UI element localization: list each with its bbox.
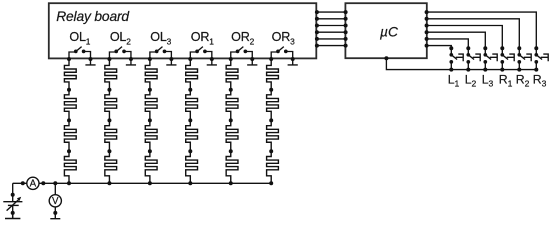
pushbutton switch R1 [502, 48, 514, 69]
voltmeter V [49, 195, 61, 207]
inductor column 3 segment 2 [145, 90, 157, 121]
junction dot column 5 tap 1 [229, 88, 233, 92]
switch OL1 (relay contact) [69, 47, 91, 59]
inductor column 6 segment 1 [267, 58, 279, 89]
junction dot column 4 tap 3 [188, 149, 192, 153]
svg-text:R2: R2 [516, 73, 530, 89]
inductor column 3 segment 4 [145, 151, 157, 183]
wire: uC output 3 to switch [427, 26, 503, 49]
svg-text:Relay board: Relay board [56, 9, 130, 24]
junction dot column 2 bottom [107, 181, 111, 185]
junction dot column 1 tap 2 [67, 118, 71, 122]
junction dot column 4 tap 1 [188, 88, 192, 92]
wire: relay board to uC line 6 [316, 45, 345, 47]
wire: uC output 4 to switch [427, 32, 486, 48]
open terminal stub under OR2 [247, 58, 257, 65]
wire: bottom bus [13, 182, 272, 184]
junction dot column 6 tap 2 [269, 118, 273, 122]
pushbutton switch L1 [451, 48, 463, 69]
junction dot column 4 bottom [188, 181, 192, 185]
wire below capacitor [12, 205, 14, 213]
inductor column 5 segment 2 [226, 90, 238, 121]
svg-text:OR2: OR2 [231, 30, 255, 47]
switch OR2 (relay contact) [231, 47, 253, 59]
ground under source [5, 213, 20, 219]
inductor column 6 segment 2 [267, 90, 279, 121]
inductor column 5 segment 1 [226, 58, 238, 89]
wire: relay board to uC line 1 [316, 11, 345, 13]
junction dot column 3 bottom [148, 181, 152, 185]
inductor column 5 segment 4 [226, 151, 238, 183]
svg-text:L2: L2 [465, 73, 477, 89]
junction dot column 6 tap 3 [269, 149, 273, 153]
junction dot column 2 tap 2 [107, 118, 111, 122]
wire: right switches common return to uC [386, 58, 536, 69]
wire: relay board to uC line 3 [316, 25, 345, 27]
junction dot column 6 bottom [269, 181, 273, 185]
svg-text:R1: R1 [499, 73, 513, 89]
inductor column 1 segment 3 [64, 120, 76, 151]
inductor column 6 segment 4 [267, 151, 279, 183]
inductor column 2 segment 4 [105, 151, 117, 183]
variable capacitor (source) [3, 200, 22, 211]
inductor column 6 segment 3 [267, 120, 279, 151]
junction dot column 2 tap 1 [107, 88, 111, 92]
junction dot source bottom [11, 211, 15, 215]
inductor column 1 segment 1 [64, 58, 76, 89]
pushbutton switch L3 [485, 48, 497, 69]
junction dots at ammeter terminals [21, 181, 25, 185]
inductor column 2 segment 1 [105, 58, 117, 89]
wire: source branch down from bus corner [12, 183, 14, 201]
junction dot on uC bottom edge [384, 56, 388, 60]
svg-text:OL3: OL3 [150, 30, 171, 47]
svg-text:L3: L3 [482, 73, 494, 89]
wire: voltmeter branch [54, 183, 56, 213]
svg-text:OR1: OR1 [191, 30, 215, 47]
svg-text:L1: L1 [448, 73, 460, 89]
ammeter A [27, 177, 39, 189]
inductor column 4 segment 2 [186, 90, 198, 121]
inductor column 1 segment 2 [64, 90, 76, 121]
inductor column 3 segment 1 [145, 58, 157, 89]
wire: relay board to uC line 5 [316, 38, 345, 40]
inductor column 3 segment 3 [145, 120, 157, 151]
svg-text:V: V [52, 196, 59, 207]
junction dot V bottom [53, 211, 57, 215]
junction dot column 3 tap 1 [148, 88, 152, 92]
junction dot column 1 tap 3 [67, 149, 71, 153]
wire: uC output 1 to switch [427, 12, 537, 48]
wire: uC output 6 to switch [427, 46, 452, 49]
pushbutton switch L2 [468, 48, 480, 69]
inductor column 5 segment 3 [226, 120, 238, 151]
svg-text:OL1: OL1 [69, 30, 90, 47]
junction dot column 2 tap 3 [107, 149, 111, 153]
inductor column 4 segment 3 [186, 120, 198, 151]
inductor column 2 segment 2 [105, 90, 117, 121]
junction dot column 1 bottom [67, 181, 71, 185]
svg-text:µC: µC [380, 24, 399, 39]
open terminal stub under OR3 [288, 58, 298, 65]
relay board box [49, 3, 317, 58]
svg-text:R3: R3 [533, 73, 547, 89]
switch OR3 (relay contact) [271, 47, 293, 59]
inductor column 2 segment 3 [105, 120, 117, 151]
junction dot column 5 tap 2 [229, 118, 233, 122]
pushbutton switch R3 [536, 48, 548, 69]
svg-text:A: A [30, 179, 37, 190]
wire: uC output 5 to switch [427, 39, 469, 48]
open terminal stub under OL3 [166, 58, 176, 65]
open terminal stub under OR1 [207, 58, 217, 65]
junction dot column 5 tap 3 [229, 149, 233, 153]
wire: uC output 2 to switch [427, 19, 520, 48]
junction dot column 4 tap 2 [188, 118, 192, 122]
junction dot source top [11, 193, 15, 197]
junction dot column 6 tap 1 [269, 88, 273, 92]
junction dot column 1 tap 1 [67, 88, 71, 92]
ground under voltmeter [50, 213, 60, 219]
switch OL2 (relay contact) [109, 47, 131, 59]
junction dot V top [53, 181, 57, 185]
switch OR1 (relay contact) [190, 47, 212, 59]
pushbutton switch R2 [519, 48, 531, 69]
open terminal stub under OL1 [85, 58, 95, 65]
svg-text:OR3: OR3 [272, 30, 296, 47]
microcontroller U1 (uC) box [345, 3, 426, 58]
inductor column 4 segment 4 [186, 151, 198, 183]
wire: relay board to uC line 2 [316, 18, 345, 20]
open terminal stub under OL2 [126, 58, 136, 65]
switch OL3 (relay contact) [150, 47, 172, 59]
svg-text:OL2: OL2 [110, 30, 131, 47]
inductor column 1 segment 4 [64, 151, 76, 183]
inductor column 4 segment 1 [186, 58, 198, 89]
junction dot column 3 tap 2 [148, 118, 152, 122]
wire: relay board to uC line 4 [316, 31, 345, 33]
junction dot column 3 tap 3 [148, 149, 152, 153]
junction dot column 5 bottom [229, 181, 233, 185]
